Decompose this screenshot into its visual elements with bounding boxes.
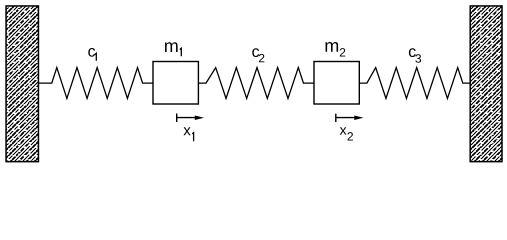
label x2 <box>340 127 353 140</box>
label c3 <box>409 48 421 62</box>
arrow x2 <box>336 114 364 122</box>
mass m1 <box>153 62 198 105</box>
arrow x1 <box>177 114 204 123</box>
spring c3 <box>359 68 470 99</box>
label c2 <box>252 48 264 62</box>
wall left <box>6 6 38 162</box>
label m1 <box>165 42 181 56</box>
label x1 <box>183 127 193 141</box>
spring c2 <box>198 68 314 99</box>
mass m2 <box>314 62 359 105</box>
wall right <box>470 6 502 162</box>
label m2 <box>326 42 346 56</box>
spring c1 <box>39 68 153 99</box>
label c1 <box>88 48 96 61</box>
